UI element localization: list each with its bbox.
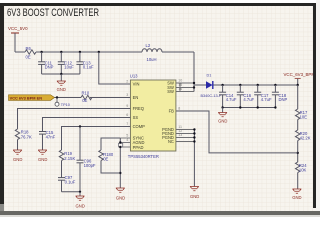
IC pin numbers	[126, 79, 182, 143]
wire VIN drop	[99, 52, 131, 84]
svg-text:U13: U13	[130, 74, 138, 79]
capacitor C17	[254, 85, 272, 108]
svg-text:42.2K: 42.2K	[300, 136, 311, 141]
ground C15	[38, 150, 47, 162]
wire R19 to C97	[61, 161, 63, 178]
node SW bus	[193, 82, 195, 84]
wire SS	[43, 118, 131, 132]
svg-text:0.1uF: 0.1uF	[65, 179, 76, 184]
svg-text:DNP: DNP	[279, 97, 288, 102]
wire AGND bus	[120, 138, 130, 188]
wire output rail	[214, 84, 298, 86]
wire FB route	[176, 111, 298, 153]
wire comp bottom rail	[62, 191, 81, 193]
node PGND bus junctions	[193, 128, 195, 130]
svg-text:GND: GND	[13, 157, 22, 162]
svg-text:VCC_5V0: VCC_5V0	[8, 26, 28, 31]
svg-text:GND: GND	[38, 157, 47, 162]
svg-text:GND: GND	[116, 195, 125, 200]
svg-text:0.1uF: 0.1uF	[83, 64, 94, 69]
svg-text:2.15K: 2.15K	[64, 156, 75, 161]
IC U1 3 body	[128, 74, 176, 159]
ground comp network	[76, 192, 85, 209]
svg-text:3: 3	[126, 93, 128, 97]
svg-text:10K: 10K	[299, 168, 307, 173]
capacitor C14	[219, 85, 237, 108]
svg-text:4: 4	[126, 138, 128, 142]
svg-text:47nF: 47nF	[46, 135, 56, 140]
ground input caps	[57, 74, 66, 92]
svg-text:10uF: 10uF	[64, 64, 74, 69]
resistor R17	[296, 109, 308, 120]
resistor R20	[296, 130, 311, 141]
svg-text:PPAD: PPAD	[133, 145, 144, 150]
svg-text:GND: GND	[292, 195, 301, 200]
capacitor C13	[76, 52, 94, 74]
node comp bottom junction	[79, 191, 81, 193]
wire C96 branch	[79, 127, 81, 161]
ground R18	[13, 150, 22, 162]
resistor R10	[81, 91, 92, 103]
ground output caps	[218, 108, 227, 124]
svg-text:76.7K: 76.7K	[21, 134, 32, 139]
wire input rail left	[15, 51, 25, 53]
wire input rail	[36, 51, 142, 53]
svg-text:GND: GND	[76, 204, 85, 209]
capacitor C96	[77, 158, 96, 191]
node input rail junctions	[40, 51, 42, 53]
svg-text:0E: 0E	[26, 55, 31, 60]
capacitor C12	[58, 52, 74, 74]
svg-text:GND: GND	[57, 87, 66, 92]
svg-text:4.7uF: 4.7uF	[261, 97, 272, 102]
svg-text:8: 8	[178, 107, 180, 111]
svg-text:16: 16	[178, 87, 182, 91]
wire caps bottom rail	[42, 73, 80, 75]
wire output caps bottom rail	[223, 107, 276, 109]
svg-text:VCC 6V3 BPM EN: VCC 6V3 BPM EN	[10, 95, 43, 100]
net label VCC 6V3 BPM EN	[9, 95, 55, 101]
resistor R24	[296, 162, 308, 173]
svg-text:R10: R10	[82, 91, 90, 96]
svg-text:SS: SS	[133, 115, 139, 120]
svg-text:10uH: 10uH	[147, 57, 157, 62]
svg-text:FB: FB	[169, 109, 175, 114]
node FB junction	[297, 152, 299, 154]
wire SW to diode	[194, 84, 206, 86]
svg-text:FREQ: FREQ	[133, 106, 144, 111]
capacitor C11	[38, 52, 54, 74]
diode D1	[201, 73, 222, 98]
wire R20 to node	[297, 141, 299, 162]
capacitor C18	[272, 85, 288, 108]
wire R24 to ground	[297, 173, 299, 189]
svg-text:TP10: TP10	[61, 103, 70, 107]
node COMP junction	[79, 125, 81, 127]
wire EN left	[55, 97, 82, 99]
resistor R18	[15, 129, 32, 140]
pin PPAD pad square	[119, 143, 123, 147]
node caps bottom junction	[60, 73, 62, 75]
svg-text:4.7uF: 4.7uF	[226, 97, 237, 102]
svg-text:10E: 10E	[300, 115, 308, 120]
svg-text:GND: GND	[190, 194, 199, 199]
wire R17 to R20	[297, 120, 299, 130]
svg-text:2: 2	[126, 80, 128, 84]
wire SW drop	[193, 52, 195, 92]
svg-text:L2: L2	[146, 43, 151, 48]
svg-text:R6: R6	[26, 46, 32, 51]
node output rail junctions	[221, 84, 223, 86]
IC pin names	[133, 81, 175, 150]
resistor R6	[25, 46, 36, 60]
ground PGND	[190, 187, 199, 199]
svg-text:100pF: 100pF	[84, 163, 96, 168]
svg-text:GND: GND	[218, 119, 227, 124]
svg-text:7: 7	[126, 122, 128, 126]
svg-text:VCC_6V3_BPM: VCC_6V3_BPM	[284, 72, 316, 77]
wire rail to inductor right	[162, 51, 194, 53]
resistor R180	[99, 138, 121, 173]
svg-text:B340C-13-F: B340C-13-F	[201, 94, 222, 98]
test point TP10	[55, 98, 70, 108]
svg-text:NC: NC	[168, 139, 174, 144]
svg-text:SW: SW	[167, 89, 174, 94]
svg-text:EN: EN	[133, 95, 139, 100]
resistor R19	[59, 150, 75, 161]
svg-text:D1: D1	[207, 73, 212, 77]
power port VCC_5V0	[8, 26, 28, 52]
svg-text:4.7uF: 4.7uF	[243, 97, 254, 102]
svg-text:0E: 0E	[103, 157, 108, 162]
svg-text:VIN: VIN	[133, 82, 140, 87]
capacitor C97	[58, 175, 76, 192]
wire SW stubs	[176, 83, 194, 92]
svg-text:10: 10	[178, 79, 182, 83]
wire FREQ	[18, 109, 131, 130]
node bottom rail junctions	[221, 106, 223, 108]
node rail right	[297, 84, 299, 86]
ground divider	[292, 189, 301, 200]
svg-text:5: 5	[126, 134, 128, 138]
node EN junction	[56, 96, 58, 98]
inductor L2	[142, 43, 162, 62]
capacitor C15	[39, 130, 56, 150]
power port VCC_6V3_BPM	[284, 72, 316, 85]
svg-text:0E: 0E	[82, 98, 87, 103]
capacitor C16	[237, 85, 255, 108]
svg-text:9: 9	[126, 104, 128, 108]
svg-text:DNP: DNP	[45, 64, 54, 69]
svg-text:TPS55340RTER: TPS55340RTER	[128, 154, 159, 159]
wire rail down to divider	[297, 85, 299, 109]
wire EN to pin	[90, 97, 130, 99]
wire PGND stubs	[176, 130, 194, 187]
svg-text:6V3 BOOST CONVERTER: 6V3 BOOST CONVERTER	[7, 7, 99, 19]
svg-text:COMP: COMP	[133, 124, 146, 129]
svg-text:6: 6	[126, 113, 128, 117]
ground AGND	[116, 188, 125, 200]
node AGND bus junctions	[119, 141, 121, 143]
wire COMP	[62, 127, 131, 151]
wire R18 to ground	[17, 140, 19, 150]
